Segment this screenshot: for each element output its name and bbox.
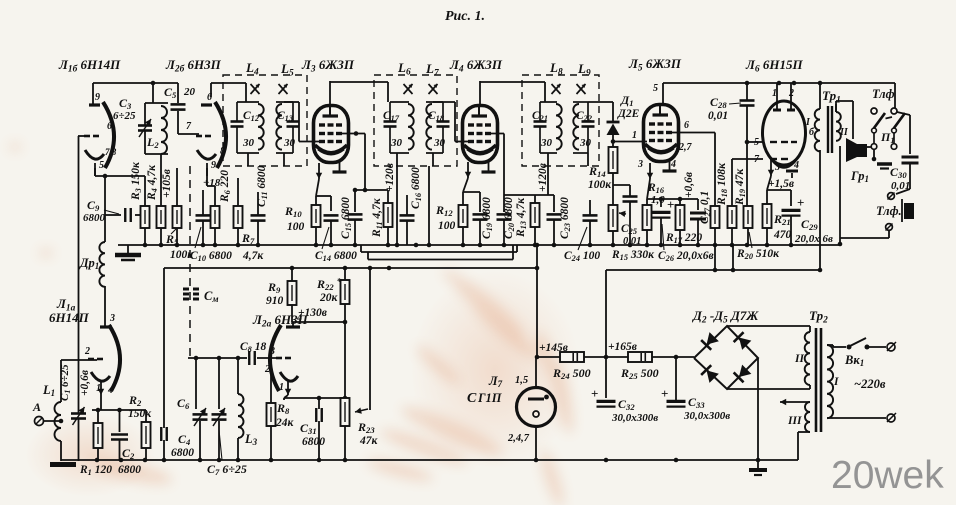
label R6 220 (219, 170, 232, 203)
svg-text:С11 6800: С11 6800 (256, 165, 269, 207)
pin 4 Л5 (670, 159, 676, 170)
svg-text:R19 47к: R19 47к (734, 168, 747, 206)
svg-text:С23 6800: С23 6800 (559, 197, 572, 239)
svg-text:Л6 6Н15П: Л6 6Н15П (745, 57, 803, 74)
svg-text:4: 4 (793, 160, 799, 171)
svg-text:+: + (591, 386, 598, 401)
capacitor C9 (104, 208, 131, 222)
capacitor C14 (322, 215, 339, 249)
label R9 (267, 280, 281, 295)
svg-text:7,8: 7,8 (105, 147, 117, 157)
resistor R11 (384, 190, 393, 245)
resistor R20 (744, 206, 753, 245)
svg-text:5: 5 (99, 160, 104, 171)
tube label Л2б 6Н3П (165, 57, 222, 74)
label См (204, 289, 219, 304)
svg-text:30: 30 (283, 137, 296, 149)
label R11 4,7к (371, 197, 384, 238)
label C23 6800 (559, 197, 572, 239)
label C32 (618, 397, 635, 412)
svg-text:II: II (839, 127, 849, 138)
label C12 (243, 110, 259, 123)
label 30 (579, 137, 592, 149)
grid node wire Л1а (61, 359, 97, 361)
svg-text:47к: 47к (359, 435, 379, 447)
wire winding I top to switch (827, 345, 846, 347)
label R5 100к (170, 249, 194, 261)
trimmer mark L6 (404, 84, 413, 94)
tube label 6Н14П (49, 310, 90, 325)
wire Л4 screen grid out (485, 134, 504, 196)
label C28 0,01 (708, 110, 728, 122)
capacitor C32 (electrolytic) (591, 386, 616, 460)
svg-text:Рис. 1.: Рис. 1. (445, 9, 485, 24)
svg-text:С7 6÷25: С7 6÷25 (207, 462, 247, 477)
svg-text:0,01: 0,01 (708, 110, 728, 122)
pin 2 Л6 (788, 88, 794, 99)
coil label L9 (577, 61, 591, 78)
label П1 (880, 130, 895, 145)
label Тр2 (809, 308, 828, 325)
wire anode Л3 to IF can 2 (330, 81, 388, 107)
wire IF1 primary bottom (247, 153, 249, 166)
label L3 (244, 432, 258, 447)
svg-text:4: 4 (670, 159, 676, 170)
svg-text:20wek: 20wek (831, 454, 944, 497)
label C22 (576, 110, 592, 123)
svg-text:24к: 24к (275, 417, 295, 429)
svg-text:II: II (794, 353, 804, 365)
IF transformer can 1 dashed box (223, 75, 307, 166)
svg-text:С10 6800: С10 6800 (190, 250, 232, 263)
terminal top (887, 342, 896, 351)
label R21 470 (773, 229, 792, 241)
capacitor C24 (578, 200, 598, 250)
cathode arrow Л1а (98, 380, 104, 395)
label +105в (161, 169, 173, 198)
label R12 100 (438, 220, 456, 232)
inductor L2 (145, 103, 168, 206)
coil label L4 (245, 60, 259, 77)
wire pole to ground stub (872, 150, 877, 162)
tube label Л6 6Н15П (745, 57, 803, 74)
label C13 (277, 110, 293, 123)
svg-text:R3 150к: R3 150к (130, 161, 143, 201)
coil label L8 (549, 60, 563, 77)
capacitor C10 (195, 190, 211, 248)
inductor L3 (238, 394, 244, 460)
inductor L6 (390, 102, 414, 153)
resistor R18 (711, 206, 720, 245)
svg-text:6800: 6800 (118, 464, 141, 476)
label Тлф (bottom) (876, 204, 902, 218)
trimmer mark L5 (279, 84, 288, 94)
svg-text:30: 30 (540, 137, 553, 149)
trimmer mark L9 (577, 84, 586, 94)
resistor R19 (728, 159, 737, 245)
heater winding arrow (780, 399, 810, 405)
label C33 30,0х300в (683, 410, 730, 422)
svg-text:С19 6800: С19 6800 (481, 197, 494, 239)
label R14 (588, 164, 606, 179)
wire IF2 secondary to grid Л4 (433, 102, 468, 142)
wire Л1а cathode node (92, 395, 146, 432)
pin 1 Л6 (772, 88, 777, 99)
phone jack (bottom) (886, 193, 915, 231)
svg-text:1: 1 (632, 130, 637, 141)
pin 3 Л5 (637, 159, 643, 170)
svg-text:150к: 150к (128, 408, 152, 420)
label Д2-Д5 Д7Ж (692, 308, 759, 325)
svg-text:20к: 20к (319, 292, 339, 304)
label C4 (178, 432, 191, 447)
trimmer mark L8 (552, 84, 561, 94)
label C30 (890, 165, 907, 180)
label C5 (164, 85, 177, 100)
figure caption (445, 9, 485, 24)
pin 3 Л6 (774, 162, 780, 173)
wire Л6 anodes to bus (777, 83, 791, 101)
resistor R9 (288, 268, 297, 322)
capacitor C3 (trimmer 6÷25) (138, 103, 152, 154)
label R18 108к (716, 162, 729, 206)
capacitor C15 (348, 188, 389, 245)
cathode arrow Л6 (768, 160, 774, 176)
label Вк1 (844, 353, 864, 368)
label +0,6в (79, 370, 91, 396)
wire Л2а cathode node (284, 395, 347, 409)
svg-text:Л5 6ЖЗП: Л5 6ЖЗП (628, 56, 682, 73)
tube label Л5 6ЖЗП (628, 56, 682, 73)
label C7 6÷25 (207, 462, 247, 477)
label C27 0,1 (699, 191, 712, 224)
pin 5 Л6 (754, 137, 759, 148)
resistor R4 (157, 206, 166, 245)
wire bridge AC top to Тр2 (727, 326, 810, 332)
resistor R10 (312, 205, 321, 245)
diode Д1 (607, 102, 620, 147)
label Гр1 (850, 169, 869, 184)
label I (833, 376, 839, 388)
voltage stabilizer tube Л7 (517, 357, 556, 460)
label R23 (357, 420, 375, 435)
wire Л6 cathode node (767, 173, 792, 206)
svg-text:+0,6в: +0,6в (683, 172, 695, 198)
coil label L6 (397, 60, 411, 77)
svg-text:6800: 6800 (302, 436, 325, 448)
tube label Л1а (56, 296, 76, 313)
pin б Л6 (809, 127, 815, 138)
label R22* (316, 276, 342, 292)
capacitor C28 (740, 83, 755, 206)
pentode Л3 (314, 106, 349, 173)
label C14 6800 (315, 250, 357, 263)
svg-text:2,7: 2,7 (678, 142, 693, 153)
label C24 100 (564, 250, 600, 263)
label +165в (608, 341, 637, 353)
wire +145в feed down (535, 245, 540, 357)
svg-text:1: 1 (279, 382, 284, 393)
switch П1 (872, 113, 905, 133)
label R13 4,7к (515, 197, 528, 238)
label Тр1 (822, 88, 841, 105)
wire phones return to bus (838, 146, 889, 246)
capacitor C12 (231, 102, 244, 153)
label R20 510к (736, 248, 780, 261)
svg-text:С: С (467, 391, 477, 406)
capacitor C5 (171, 104, 186, 109)
resistor R14 (609, 147, 618, 205)
svg-text:3: 3 (109, 313, 115, 324)
switch pole contacts (871, 133, 897, 149)
label +1,5в (768, 178, 794, 190)
inductor L4 (237, 99, 264, 153)
label 30 (433, 137, 446, 149)
rectifier bridge Д2-Д5 (694, 326, 758, 389)
label 2,4,7 (507, 433, 530, 444)
svg-text:100: 100 (287, 221, 305, 233)
label R8 24к (275, 417, 295, 429)
label R2 150к (128, 393, 142, 408)
svg-text:С15 6800: С15 6800 (340, 197, 353, 239)
label C4 6800 (171, 447, 194, 459)
label +145в (539, 342, 568, 354)
svg-text:2: 2 (84, 346, 90, 357)
label C3 value 6÷25 (113, 110, 136, 122)
wire speaker to switch pole (867, 146, 871, 148)
inductor L9 (573, 102, 588, 153)
label C25 (621, 223, 637, 236)
label R1 120 (79, 464, 112, 477)
label C30 0,01 (891, 180, 910, 192)
svg-text:100к: 100к (588, 179, 612, 191)
label C10 6800 (190, 250, 232, 263)
wire Л1б cathode node (95, 168, 147, 242)
B+ line to rectifier (y=270) (606, 245, 822, 272)
label Д1 (620, 93, 634, 108)
svg-text:Г1П: Г1П (477, 391, 503, 405)
svg-text:Тлф: Тлф (872, 87, 895, 101)
wire detector to grid Л5 (611, 139, 647, 144)
label А (antenna) (32, 400, 41, 414)
svg-text:4: 4 (296, 313, 302, 324)
wire Л1б grid to left rail (78, 136, 86, 360)
label R16 (647, 182, 665, 195)
svg-text:6: 6 (684, 120, 689, 131)
label C18 (428, 110, 445, 123)
wire anode Л4 to IF can 3 (480, 81, 545, 104)
label 30 (390, 137, 403, 149)
IF transformer can 2 dashed box (374, 75, 457, 166)
label C9 (87, 198, 100, 213)
resistor R5 (171, 168, 182, 245)
wire C30 to bottom jack (896, 163, 910, 194)
IF transformer can 3 dashed box (522, 75, 599, 166)
svg-text:R6 220: R6 220 (219, 170, 232, 203)
svg-text:III: III (787, 415, 802, 427)
wire Л6 grids (732, 140, 763, 159)
label R10 100 (287, 221, 305, 233)
label C5 value 20 (183, 86, 196, 98)
label R8 (276, 401, 290, 416)
svg-text:3: 3 (269, 346, 275, 357)
ground symbol rectifier (749, 470, 767, 475)
wire C5 to grid Л2б (178, 111, 199, 134)
pin 4 Л6 (793, 160, 799, 171)
triode Л1б (84, 83, 117, 176)
svg-text:470: 470 (773, 229, 792, 241)
pin 6 Л5 (684, 120, 689, 131)
capacitor C18 (437, 102, 450, 153)
pin 7 Л6 (754, 154, 760, 165)
transformer Тр2 winding III (805, 402, 810, 432)
svg-text:R25 500: R25 500 (620, 366, 659, 381)
label C31 6800 (302, 436, 325, 448)
label C25 0,01 (623, 236, 641, 247)
label R17 220 (665, 232, 702, 245)
AGC dashed line (189, 166, 191, 358)
svg-text:2,4,7: 2,4,7 (507, 433, 530, 444)
label R22 20к (319, 292, 339, 304)
label R19 47к (734, 168, 747, 206)
wire right jack to C30 (897, 112, 910, 154)
label C11 6800 (256, 165, 269, 207)
capacitor C1 (trimmer) (71, 360, 86, 461)
potentiometer R15 (volume) (609, 205, 627, 245)
label 1,5 (515, 375, 528, 386)
label C28 (710, 95, 727, 110)
pentode Л5 (644, 105, 679, 172)
svg-text:2: 2 (264, 364, 270, 375)
cathode arrow Л4 (465, 162, 471, 178)
wire Л3 cathode to R10 C14 (316, 179, 331, 211)
wire Л5 screen grid out (666, 133, 715, 207)
label L1 (42, 383, 55, 398)
label II Тр1 (839, 127, 849, 138)
pin 5 Л5 (653, 83, 658, 94)
svg-text:Тлф.: Тлф. (876, 204, 902, 218)
capacitor C16 (400, 195, 415, 245)
svg-text:R20 510к: R20 510к (736, 248, 780, 261)
wire top bus right (anode Л5, Л6, Тр1, phones) (663, 81, 895, 108)
label C3 (119, 96, 132, 111)
resistor R16 (643, 205, 652, 245)
label +130в (298, 307, 327, 319)
cathode arrow Л3 (316, 163, 322, 179)
resistor R17 (676, 205, 685, 245)
label C21 (532, 110, 548, 123)
svg-text:R15 330к: R15 330к (611, 249, 655, 262)
svg-text:R18 108к: R18 108к (716, 162, 729, 206)
capacitor C22 (582, 102, 595, 153)
label R25 500 (620, 366, 659, 381)
svg-text:А: А (32, 400, 41, 414)
triode Л1а (84, 285, 120, 396)
resistor R21 (763, 204, 772, 245)
resistor R12 (459, 205, 468, 245)
pin 7 Л2б (186, 121, 192, 132)
resistor R7 (234, 178, 243, 245)
wire Л5 cathode node (647, 179, 698, 210)
tube label Г1П (477, 391, 503, 405)
resistor R1 (94, 423, 103, 461)
capacitor C19 (473, 214, 488, 245)
svg-text:Л4 6ЖЗП: Л4 6ЖЗП (449, 57, 503, 74)
wire Тр1 secondary to speaker (836, 101, 853, 139)
svg-text:С14 6800: С14 6800 (315, 250, 357, 263)
label +120в (2) (537, 163, 549, 192)
label Др1 (79, 256, 99, 271)
svg-text:I: I (833, 376, 839, 388)
resistor R22 (341, 268, 350, 398)
wire IF3 secondary to detector (588, 102, 613, 166)
capacitor C8 (240, 351, 276, 365)
capacitor C11 (203, 190, 266, 245)
label C26 20,0х6в (658, 250, 714, 263)
svg-text:R1 120: R1 120 (79, 464, 112, 477)
tube label СГ1П (467, 391, 477, 406)
label R9 910 (266, 295, 284, 307)
label ~220в (854, 377, 886, 391)
svg-text:6800: 6800 (171, 447, 194, 459)
wire bridge negative to ground (757, 358, 759, 470)
trimmer mark L4 (251, 84, 260, 94)
label I Тр1 (805, 117, 811, 128)
capacitor C2 (111, 435, 128, 462)
label R15 330к (611, 249, 655, 262)
label +1,8в (203, 177, 221, 189)
svg-text:6: 6 (107, 121, 112, 132)
pin 1 Л5 (632, 130, 637, 141)
transformer Тр2 winding I (827, 345, 833, 418)
capacitor C29 (electrolytic) (782, 195, 805, 245)
resistor R24 (537, 352, 606, 362)
coil label L5 (280, 61, 294, 78)
wire Л4 cathode node (463, 178, 480, 212)
svg-text:4: 4 (107, 385, 113, 396)
svg-text:100: 100 (438, 220, 456, 232)
label C2 6800 (118, 464, 141, 476)
label C6 (177, 396, 190, 411)
capacitor C25 (613, 185, 638, 245)
svg-text:30: 30 (390, 137, 403, 149)
wire switch to terminal (867, 346, 886, 348)
label L2 (146, 135, 159, 150)
tube label Л2а 6Н3П (252, 312, 309, 329)
chassis ground (left bus end) (115, 255, 141, 260)
label R12 (435, 203, 453, 218)
svg-text:30: 30 (242, 137, 255, 149)
svg-text:+: + (797, 195, 804, 210)
label R14 100к (588, 179, 612, 191)
leader C7 (219, 430, 222, 460)
capacitor C30 (902, 157, 919, 163)
label 30 (283, 137, 296, 149)
svg-text:30: 30 (579, 137, 592, 149)
capacitor C4 (161, 427, 167, 460)
tube label Л1б 6Н14П (58, 57, 121, 74)
tube label Л4 6ЖЗП (449, 57, 503, 74)
trimmer mark L7 (429, 84, 438, 94)
capacitor C23 (547, 195, 562, 245)
svg-text:6800: 6800 (83, 212, 106, 224)
svg-text:+: + (667, 197, 674, 212)
svg-text:Л1б 6Н14П: Л1б 6Н14П (58, 57, 121, 74)
potentiometer R23 (341, 268, 371, 460)
label II (794, 353, 804, 365)
wire +130в anode feed (292, 320, 347, 325)
svg-text:+105в: +105в (161, 169, 173, 198)
